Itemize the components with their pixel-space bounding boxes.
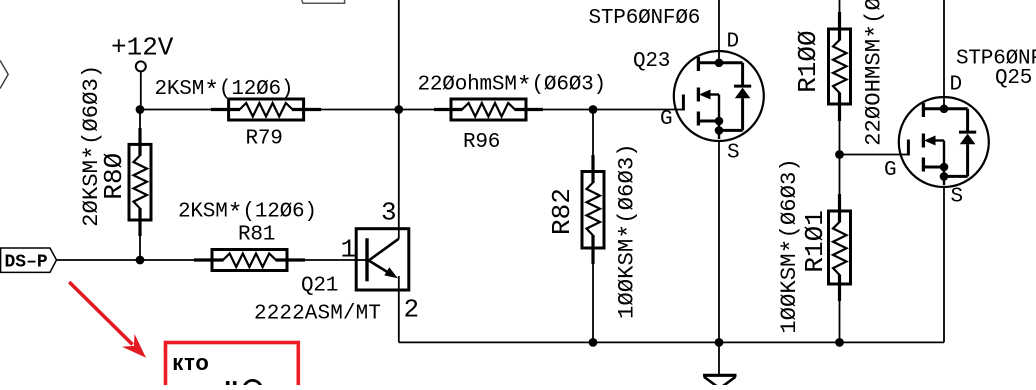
junction: ground / bottom rail bbox=[715, 338, 724, 347]
svg-text:R82: R82 bbox=[547, 188, 577, 235]
svg-text:2222ASM/MT: 2222ASM/MT bbox=[254, 303, 381, 326]
junction: DS-P / R80 / R81 bbox=[136, 256, 145, 265]
wire: R100/R101 column x=839.5 bbox=[839, 0, 841, 342]
wire: +12V stub bbox=[140, 71, 142, 109]
svg-text:R79: R79 bbox=[246, 128, 283, 151]
MOSFET Q23 bbox=[589, 7, 764, 164]
wire: R80 column x=140 bbox=[139, 110, 141, 261]
junction: R101 / bottom rail bbox=[835, 338, 844, 347]
junction: +12V / R79 / R80 bbox=[136, 105, 145, 114]
svg-text:1ØØKSM*(Ø6Ø3): 1ØØKSM*(Ø6Ø3) bbox=[614, 143, 645, 319]
wire: DS-P row y=260 bbox=[57, 259, 368, 261]
svg-text:R96: R96 bbox=[463, 131, 500, 154]
svg-text:S: S bbox=[727, 142, 739, 165]
wire: Q21 collector column x=398.8 (top) bbox=[398, 0, 400, 239]
svg-text:DS–P: DS–P bbox=[5, 253, 48, 273]
off-page connector fragment (left edge) bbox=[0, 60, 8, 88]
svg-text:2ØKSM*(Ø6Ø3): 2ØKSM*(Ø6Ø3) bbox=[78, 65, 109, 227]
resistor R81 bbox=[178, 199, 317, 271]
svg-text:D: D bbox=[950, 74, 962, 97]
ground bbox=[703, 375, 737, 389]
wire: ground stub bbox=[718, 342, 720, 375]
junction: R79 / R96 / Q21 collector bbox=[394, 105, 403, 114]
svg-text:22ØOHMSM*(Ø6Ø3): 22ØOHMSM*(Ø6Ø3) bbox=[861, 0, 892, 146]
+12V power terminal bbox=[111, 33, 174, 72]
red annotation arrow bbox=[69, 282, 146, 358]
svg-text:S: S bbox=[951, 185, 963, 208]
red annotation box "кто" bbox=[166, 343, 299, 390]
svg-text:R81: R81 bbox=[238, 223, 275, 246]
wire: Q23 source column down to bottom rail bbox=[718, 139, 720, 342]
svg-text:Q23: Q23 bbox=[633, 50, 670, 73]
wire: Q25 drain column x=944 bbox=[943, 0, 945, 99]
junction: R96 / R82 / Q23 gate bbox=[589, 105, 598, 114]
resistor R100 bbox=[793, 0, 891, 146]
resistor R79 bbox=[155, 77, 322, 151]
svg-text:кто: кто bbox=[172, 350, 209, 375]
svg-text:STP6ØNFØ6: STP6ØNFØ6 bbox=[956, 48, 1036, 71]
resistor R96 bbox=[418, 72, 606, 154]
top box fragment bbox=[302, 0, 345, 3]
svg-text:2: 2 bbox=[404, 294, 420, 324]
wire: bottom rail y=342.4 bbox=[399, 341, 944, 343]
resistor R80 bbox=[78, 65, 151, 236]
wire: top rail y=109.5 from +12V node to Q23 gate bbox=[140, 109, 683, 111]
svg-text:G: G bbox=[660, 108, 672, 131]
svg-text:G: G bbox=[884, 159, 896, 182]
svg-text:Q21: Q21 bbox=[301, 275, 338, 298]
svg-text:+12V: +12V bbox=[111, 33, 174, 63]
svg-text:R1ØØ: R1ØØ bbox=[793, 30, 823, 92]
wire: R82 column x=593 bbox=[592, 110, 594, 343]
wire: Q21 emitter column down to bottom rail bbox=[398, 277, 400, 342]
wire: Q25 gate row y=154.5 bbox=[840, 154, 908, 156]
node DS-P flag bbox=[1, 248, 57, 273]
svg-text:STP6ØNFØ6: STP6ØNFØ6 bbox=[589, 7, 701, 30]
wire: Q23 drain column x=719 bbox=[718, 0, 720, 53]
resistor R101 bbox=[776, 158, 851, 334]
junction: R82 / bottom rail bbox=[589, 338, 598, 347]
junction: R100 / R101 / Q25 gate bbox=[835, 150, 844, 159]
svg-text:1: 1 bbox=[341, 235, 357, 265]
resistor R82 bbox=[547, 143, 644, 319]
MOSFET Q25 bbox=[884, 48, 1036, 209]
svg-text:3: 3 bbox=[381, 197, 397, 227]
transistor Q21 bbox=[254, 197, 419, 325]
svg-text:D: D bbox=[727, 30, 739, 53]
svg-text:1ØØKSM*(Ø6Ø3): 1ØØKSM*(Ø6Ø3) bbox=[776, 158, 807, 334]
wire: Q25 source column down to bottom rail bbox=[943, 185, 945, 342]
